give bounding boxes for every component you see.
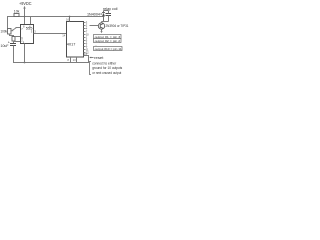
svg-text:15: 15 [84, 52, 87, 56]
wire emitter down with arrow [100, 29, 102, 33]
svg-text:output #10 = pin 11: output #10 = pin 11 [95, 47, 122, 51]
diode D1 flyback [102, 11, 105, 22]
potentiometer wiper arrow [11, 28, 16, 32]
svg-text:16: 16 [66, 18, 69, 22]
transistor Q1 [98, 23, 104, 29]
svg-text:14: 14 [62, 34, 65, 38]
wire capacitor to ground rail [13, 46, 15, 63]
svg-text:1N4004: 1N4004 [87, 12, 100, 16]
wire 555 pin8 drop from rail [24, 17, 26, 25]
wire 4017 output pin2 to transistor base [90, 25, 99, 27]
capacitor C1 plates [10, 44, 16, 46]
wire collector to relay [101, 22, 103, 23]
svg-text:4017: 4017 [67, 42, 76, 46]
svg-text:100k: 100k [1, 30, 8, 34]
junction dot rail/pin16 [69, 16, 71, 18]
svg-text:connect to either: connect to either [92, 61, 117, 65]
svg-text:10k: 10k [14, 9, 20, 13]
note bracket [90, 62, 92, 75]
wire 4017 pin16 vcc drop from rail [69, 17, 71, 22]
junction dot rail/supply [24, 16, 26, 18]
wire 555 pin1 to ground [24, 44, 26, 63]
wire 555 pin3 to 4017 pin14 clock [34, 33, 67, 35]
svg-text:reset: reset [94, 56, 103, 60]
relay coil plates [106, 14, 112, 16]
4017 output pin numbers [86, 21, 89, 55]
svg-text:13: 13 [73, 58, 76, 62]
svg-text:ground for 10 outputs: ground for 10 outputs [92, 66, 122, 70]
resistor R2 body [12, 37, 15, 42]
svg-text:10uF: 10uF [1, 44, 10, 48]
wire pot wiper to 555 pin7 [16, 27, 21, 29]
output mapping box 1 [94, 35, 122, 39]
4017 output pin stubs right side [84, 23, 86, 53]
svg-text:2N3904 or TIP31: 2N3904 or TIP31 [106, 24, 129, 28]
ground rail [13, 62, 89, 64]
4017 ground pins 8 and 13 [71, 57, 77, 63]
wire top +V rail [7, 16, 104, 18]
pin numbers 555 [21, 24, 33, 44]
relay coil connection stubs [102, 11, 109, 22]
svg-text:+9VDC: +9VDC [19, 1, 32, 6]
output mapping box 2 [94, 39, 122, 43]
IC 4017 decade counter U2 [67, 22, 84, 58]
potentiometer body [8, 29, 12, 35]
wire left vertical from rail to pot [7, 17, 9, 29]
wire pot bottom jog to R2 [10, 34, 14, 37]
wire R2 top to 555 pin6 [15, 36, 20, 38]
wire 4017 pin15 reset to ground [84, 56, 89, 63]
diode D1 pointer arrow [100, 13, 102, 14]
svg-text:output #2 = pin 2: output #2 = pin 2 [95, 39, 121, 43]
output mapping box 3 [94, 47, 123, 51]
wire 555 pin4 drop from rail [30, 17, 32, 25]
wire R2 bottom to capacitor [13, 41, 15, 44]
wire R2 bottom node to 555 pin2 [14, 41, 21, 43]
wire supply arrow down to rail [23, 6, 25, 17]
IC 555 timer U1 [21, 25, 34, 44]
junction dot ground/555 pin1 [24, 62, 26, 64]
resistor R1 body [14, 14, 19, 17]
svg-text:or next unused output: or next unused output [92, 71, 121, 75]
reset note arrow [89, 57, 93, 59]
